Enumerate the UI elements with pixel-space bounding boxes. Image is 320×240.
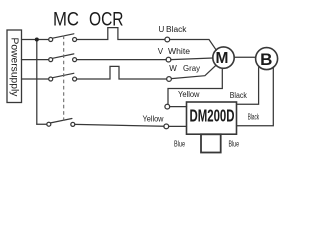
svg-text:Blue: Blue	[174, 140, 185, 149]
svg-text:Blue: Blue	[229, 140, 240, 149]
svg-text:V: V	[158, 47, 164, 56]
svg-text:MC: MC	[53, 9, 79, 30]
svg-text:M: M	[216, 50, 229, 67]
svg-text:B: B	[260, 50, 272, 69]
svg-text:Gray: Gray	[183, 64, 200, 73]
svg-text:W: W	[169, 64, 177, 73]
svg-text:DM200D: DM200D	[190, 105, 235, 125]
svg-text:OCR: OCR	[89, 9, 124, 30]
svg-text:Black: Black	[166, 25, 188, 34]
svg-text:Powersupply: Powersupply	[9, 38, 20, 98]
svg-text:Black: Black	[248, 112, 260, 121]
svg-text:White: White	[168, 47, 191, 56]
svg-text:Black: Black	[230, 91, 248, 100]
svg-text:Yellow: Yellow	[178, 90, 200, 99]
svg-text:Yellow: Yellow	[143, 114, 164, 123]
svg-text:U: U	[159, 25, 165, 34]
